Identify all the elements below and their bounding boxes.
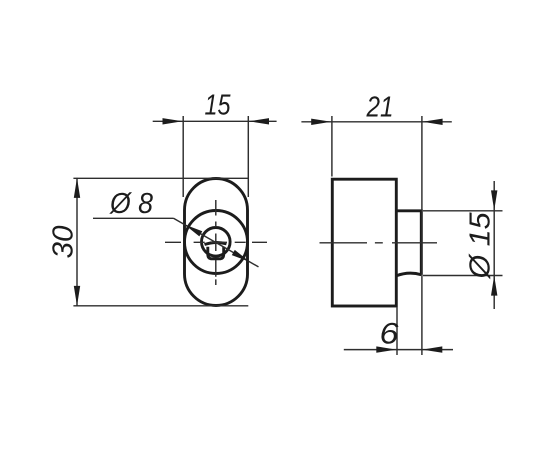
Ø8 diagonal dimension line bbox=[174, 218, 259, 267]
arrowhead dimØ15 bottom bbox=[491, 276, 497, 296]
arrowhead dim15 left bbox=[163, 118, 183, 124]
arrowhead dim6 left bbox=[376, 346, 396, 352]
arrowhead dimØ8 lower-right bbox=[232, 250, 250, 262]
dimension 30 line bbox=[76, 178, 78, 306]
vertical centerline of front view bbox=[215, 200, 217, 285]
side view body rectangle bbox=[332, 179, 396, 306]
front view large circle (cylinder face) bbox=[185, 211, 248, 274]
arrowhead dim21 right bbox=[423, 119, 443, 125]
arrowhead dimØ8 upper-left bbox=[184, 224, 202, 236]
svg-text:Ø 15: Ø 15 bbox=[465, 212, 497, 280]
dimension 15 line bbox=[153, 120, 277, 122]
dimension 30 extension lines (top/bottom tangents) bbox=[73, 178, 248, 305]
svg-text:6: 6 bbox=[380, 318, 399, 351]
arrowhead dim30 bottom bbox=[74, 286, 80, 306]
horizontal centerline of front view bbox=[165, 241, 267, 243]
dimension Ø15 line bbox=[493, 181, 495, 309]
arrowhead dim15 right bbox=[249, 118, 269, 124]
dimension Ø15 extension lines bbox=[423, 211, 503, 276]
arrowhead dim21 left bbox=[311, 119, 331, 125]
svg-text:21: 21 bbox=[366, 92, 394, 124]
dimension 21 line bbox=[301, 121, 451, 123]
Ø8 leader shoulder line bbox=[93, 217, 174, 219]
dimension 6 line bbox=[344, 349, 453, 351]
arrowhead dimØ15 top bbox=[491, 190, 497, 210]
svg-text:Ø 8: Ø 8 bbox=[109, 188, 153, 220]
dimension 15 extension lines bbox=[183, 116, 248, 197]
side view boss outline bbox=[396, 211, 421, 276]
side view centerline bbox=[320, 242, 438, 244]
arrowhead dim30 top bbox=[74, 178, 80, 198]
arrowhead dim6 right bbox=[422, 346, 442, 352]
svg-text:15: 15 bbox=[205, 90, 232, 122]
front view inner circle Ø8 bbox=[202, 228, 231, 257]
keyhole bucket bbox=[208, 247, 224, 259]
front view capsule outline bbox=[185, 179, 248, 306]
keyhole lid arc bbox=[205, 242, 227, 244]
svg-text:30: 30 bbox=[48, 226, 80, 259]
dimension 6 extension line bbox=[396, 308, 398, 356]
dimension 21 extension lines bbox=[332, 116, 422, 355]
